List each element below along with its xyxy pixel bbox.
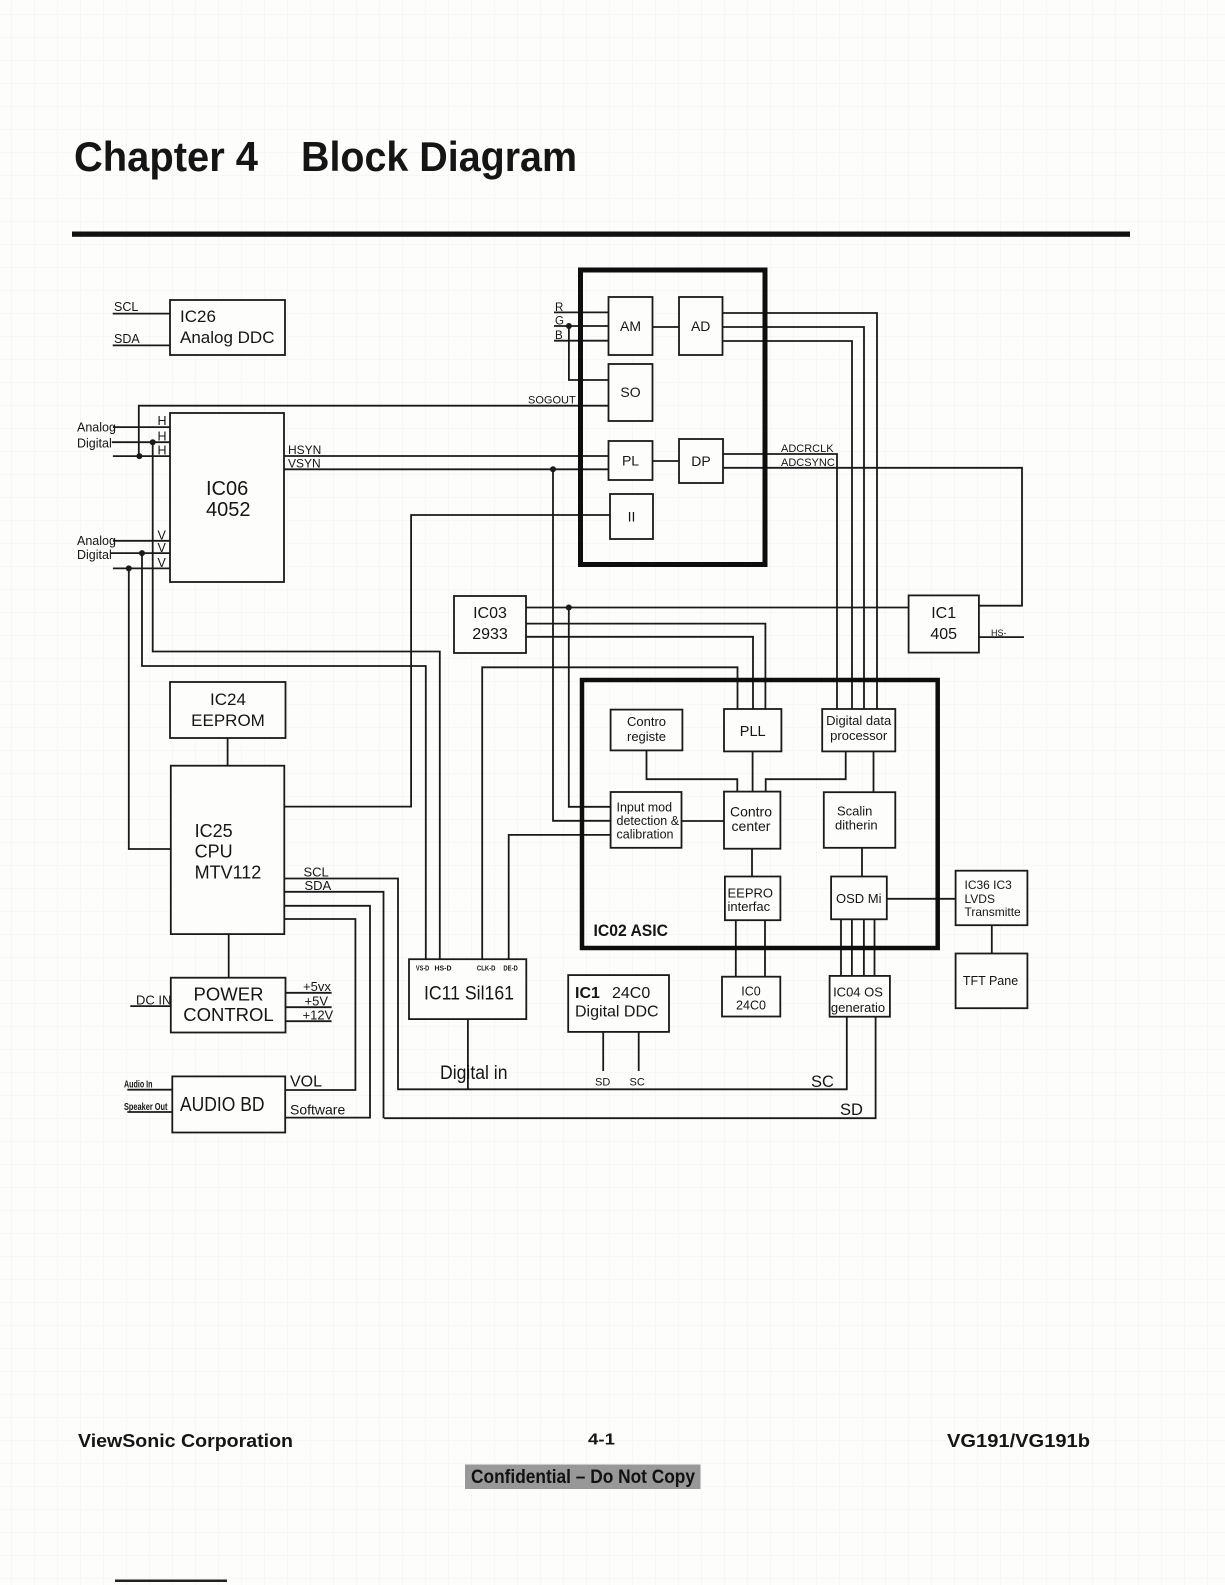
svg-text:IC36 IC3: IC36 IC3 xyxy=(965,878,1013,892)
svg-text:SD: SD xyxy=(840,1101,863,1119)
svg-text:Analog: Analog xyxy=(77,534,116,548)
wire OSD Mi to LVDS transmitter xyxy=(887,898,956,900)
wire third H input xyxy=(113,455,170,457)
wire R input stub xyxy=(554,311,609,313)
svg-text:V: V xyxy=(158,556,167,570)
wire Contro registe to Contro center xyxy=(647,750,738,791)
svg-text:AM: AM xyxy=(620,318,641,334)
box Input mod detection and calibration xyxy=(611,792,682,848)
svg-text:4-1: 4-1 xyxy=(588,1432,615,1449)
wire IC11 Digital in drop xyxy=(467,1019,469,1089)
wire LVDS transmitter to TFT panel xyxy=(991,925,993,953)
wire Digital data processor to Scalin ditherin xyxy=(873,751,875,792)
svg-text:DC IN: DC IN xyxy=(136,992,171,1007)
box IC1 24C0 Digital DDC xyxy=(568,975,669,1032)
svg-text:Scalin: Scalin xyxy=(837,804,872,819)
wire SDA from IC25 down to SD line xyxy=(284,892,383,1118)
wire SC bus line to IC04 xyxy=(397,1017,847,1090)
svg-text:CLK-D: CLK-D xyxy=(477,964,496,973)
svg-text:B: B xyxy=(555,330,563,342)
junction VSYN xyxy=(550,466,556,472)
svg-text:Digital in: Digital in xyxy=(440,1063,508,1084)
svg-text:registe: registe xyxy=(627,729,666,744)
svg-text:calibration: calibration xyxy=(617,828,674,842)
svg-text:AD: AD xyxy=(691,318,710,334)
box AD xyxy=(679,297,723,355)
wire DC IN stub xyxy=(130,1005,171,1007)
svg-text:IC04 OS: IC04 OS xyxy=(833,985,883,1000)
box IC36 IC3 LVDS Transmitte xyxy=(956,871,1028,926)
stray scan line bottom left xyxy=(115,1580,227,1583)
svg-text:405: 405 xyxy=(930,626,957,643)
svg-text:Block Diagram: Block Diagram xyxy=(301,133,577,180)
wire Software from IC25 to AUDIO BD xyxy=(284,906,370,1118)
svg-text:Transmitte: Transmitte xyxy=(965,905,1022,919)
wire B input stub xyxy=(554,340,609,342)
box Scalin ditherin xyxy=(824,792,896,848)
wire HS- stub from IC1 405 xyxy=(979,636,1024,638)
wire V input junction down to IC25 left pin xyxy=(129,568,171,849)
svg-text:generatio: generatio xyxy=(831,1000,885,1015)
junction third H / SOGOUT xyxy=(136,453,142,459)
svg-text:SD: SD xyxy=(595,1077,610,1089)
svg-text:Audio In: Audio In xyxy=(124,1080,153,1091)
wire PL to DP xyxy=(653,460,680,462)
wire IC11 DE-D up to Input mod pin xyxy=(509,835,611,959)
box PL xyxy=(609,441,653,480)
box IC04 OS generatio xyxy=(830,976,890,1017)
junction third V xyxy=(126,565,132,571)
box AUDIO BD xyxy=(172,1076,285,1132)
wire Speaker Out stub xyxy=(127,1111,172,1113)
svg-text:PL: PL xyxy=(622,453,639,469)
wire IC25 to POWER CONTROL xyxy=(228,934,230,978)
svg-text:H: H xyxy=(158,444,167,458)
wire ADCSYNC from DP to IC1 405 xyxy=(723,468,1022,606)
svg-text:detection &: detection & xyxy=(617,814,680,828)
title Chapter 4 Block Diagram xyxy=(74,133,577,180)
svg-text:SO: SO xyxy=(620,384,640,400)
svg-text:DP: DP xyxy=(691,453,710,469)
svg-text:LVDS: LVDS xyxy=(965,892,995,906)
svg-text:IC11 Sil161: IC11 Sil161 xyxy=(424,984,514,1005)
box Contro registe xyxy=(611,710,683,751)
svg-text:Digital: Digital xyxy=(77,437,112,451)
footer confidential highlight xyxy=(465,1465,701,1490)
svg-text:VS-D: VS-D xyxy=(416,964,430,973)
svg-text:V: V xyxy=(158,541,167,555)
svg-text:TFT Pane: TFT Pane xyxy=(963,974,1018,988)
svg-text:ditherin: ditherin xyxy=(835,818,878,833)
svg-text:H: H xyxy=(158,430,167,444)
junction Digital H xyxy=(150,439,156,445)
wire Analog V input xyxy=(113,540,170,542)
box AM xyxy=(609,297,653,355)
svg-text:Digital DDC: Digital DDC xyxy=(575,1004,659,1021)
svg-text:MTV112: MTV112 xyxy=(195,863,262,883)
svg-text:ViewSonic Corporation: ViewSonic Corporation xyxy=(78,1431,293,1451)
svg-text:HSYN: HSYN xyxy=(288,443,321,457)
svg-text:VOL: VOL xyxy=(290,1074,322,1091)
svg-text:4052: 4052 xyxy=(206,499,251,521)
svg-text:+12V: +12V xyxy=(303,1008,334,1023)
svg-text:24C0: 24C0 xyxy=(736,999,766,1013)
svg-text:IC02 ASIC: IC02 ASIC xyxy=(594,922,669,940)
wire Digital V input xyxy=(111,552,170,554)
svg-text:IC0: IC0 xyxy=(741,985,761,999)
svg-text:Analog DDC: Analog DDC xyxy=(180,328,275,347)
svg-text:SDA: SDA xyxy=(305,878,332,893)
wire Contro center to EEPRO interfac xyxy=(751,849,753,877)
svg-text:+5vx: +5vx xyxy=(303,979,331,994)
box IC06 4052 xyxy=(170,413,284,582)
wire Scalin ditherin to OSD Mi xyxy=(861,848,863,877)
wire ADCRCLK from DP down to Digital data processor xyxy=(723,454,837,709)
svg-text:Contro: Contro xyxy=(627,714,666,729)
wire IC25 to II box xyxy=(284,515,610,807)
svg-text:CONTROL: CONTROL xyxy=(183,1004,273,1025)
wire Digital H down to IC11 HS-D pin xyxy=(153,442,440,959)
wire B output from AD down to Digital data processor xyxy=(723,341,853,709)
svg-text:Digital data: Digital data xyxy=(826,713,892,728)
wire OSD Mi to IC04 pin 3 xyxy=(863,919,865,976)
wire OSD Mi to IC04 pin 2 xyxy=(851,919,853,976)
box Contro center xyxy=(724,792,780,849)
wire IC03 third output to PLL xyxy=(526,637,753,709)
svg-text:SDA: SDA xyxy=(114,332,140,346)
svg-text:SC: SC xyxy=(811,1073,834,1091)
thick box IC02 ASIC xyxy=(582,680,938,948)
svg-text:IC03: IC03 xyxy=(473,605,507,622)
svg-text:POWER: POWER xyxy=(194,984,264,1005)
svg-text:AUDIO BD: AUDIO BD xyxy=(180,1093,265,1116)
svg-text:VG191/VG191b: VG191/VG191b xyxy=(947,1431,1090,1451)
box DP xyxy=(679,439,723,483)
svg-text:OSD Mi: OSD Mi xyxy=(836,891,882,906)
wire VSYN branch down to Input mod pin 2 xyxy=(553,469,611,821)
wire IC24 to IC25 xyxy=(227,738,229,766)
wire +5vx stub xyxy=(286,992,332,994)
box OSD Mi xyxy=(831,877,887,920)
svg-text:SOGOUT: SOGOUT xyxy=(528,395,576,407)
svg-text:CPU: CPU xyxy=(195,842,233,862)
wire OSD Mi to IC04 pin 1 xyxy=(840,919,842,976)
wire HSYN from IC06 to PL xyxy=(284,455,609,457)
svg-text:VSYN: VSYN xyxy=(288,457,321,471)
svg-text:processor: processor xyxy=(830,728,888,743)
wire SD bus line to IC04 xyxy=(384,1017,875,1118)
svg-text:SC: SC xyxy=(630,1077,645,1089)
junction Digital V xyxy=(139,550,145,556)
box IC0 24C0 xyxy=(722,977,780,1017)
box II xyxy=(610,494,653,539)
wire Input mod to Contro center xyxy=(682,820,725,822)
box PLL xyxy=(724,709,781,751)
svg-text:IC124C0: IC124C0 xyxy=(575,985,650,1002)
wire AM to AD xyxy=(653,326,680,328)
wire R output from AD down to Digital data processor xyxy=(723,313,878,709)
wire SCL from IC25 down to SC line xyxy=(284,879,398,1090)
svg-text:H: H xyxy=(158,414,167,428)
box IC11 Sil161 xyxy=(409,959,526,1019)
wire PLL to Contro center xyxy=(752,751,754,791)
svg-text:EEPROM: EEPROM xyxy=(191,711,265,730)
wire VOL from IC25 to AUDIO BD xyxy=(284,919,355,1090)
wire G input stub xyxy=(554,325,609,327)
box EEPRO interfac xyxy=(725,877,781,921)
wire IC1 DDC SD stub xyxy=(602,1032,604,1071)
svg-text:Software: Software xyxy=(290,1102,345,1118)
wire third V input xyxy=(113,567,170,569)
wire IC03 second output to PLL xyxy=(526,624,765,709)
wire G output from AD down to Digital data processor xyxy=(723,327,865,709)
wire Digital H input xyxy=(112,441,170,443)
wire SOGOUT net from H input to SO box xyxy=(139,406,609,456)
wire IC03 line branch down to Input mod pin 1 xyxy=(569,608,611,807)
svg-text:Input mod: Input mod xyxy=(617,801,673,815)
wire Audio In stub xyxy=(127,1089,172,1091)
box IC26 Analog DDC xyxy=(170,300,285,355)
svg-text:Confidential – Do Not Copy: Confidential – Do Not Copy xyxy=(471,1467,695,1488)
svg-text:ADCRCLK: ADCRCLK xyxy=(781,443,834,455)
wire +12V stub xyxy=(286,1020,332,1022)
box SO xyxy=(609,364,653,421)
svg-text:II: II xyxy=(628,509,636,525)
wire G branch down into SO xyxy=(569,326,609,380)
wire EEPRO interfac to IC0 24C0 pin b xyxy=(764,920,766,977)
wire OSD Mi to IC04 pin 4 xyxy=(874,919,876,976)
junction G sync-on-green xyxy=(566,323,572,329)
wire IC11 CLK-D up and over to PLL xyxy=(482,667,737,959)
wire Analog H input xyxy=(113,426,170,428)
junction IC03 output xyxy=(566,605,572,611)
title rule xyxy=(72,232,1130,237)
svg-text:ADCSYNC: ADCSYNC xyxy=(781,457,835,469)
wire +5V stub xyxy=(286,1006,332,1008)
svg-text:IC26: IC26 xyxy=(180,307,216,326)
wire IC03 to IC1 405 xyxy=(526,607,909,609)
svg-text:IC1: IC1 xyxy=(931,605,956,622)
svg-text:2933: 2933 xyxy=(472,626,508,643)
svg-text:Chapter 4: Chapter 4 xyxy=(74,133,259,180)
svg-text:HS-D: HS-D xyxy=(435,964,453,973)
wire SDA stub to IC26 xyxy=(113,344,170,346)
svg-text:HS-: HS- xyxy=(991,628,1007,638)
svg-text:IC25: IC25 xyxy=(195,821,233,841)
svg-text:G: G xyxy=(555,316,564,328)
wire SCL stub to IC26 xyxy=(113,313,170,315)
wire VSYN from IC06 to PL xyxy=(284,468,609,470)
svg-text:DE-D: DE-D xyxy=(503,964,518,973)
svg-text:center: center xyxy=(732,818,771,834)
box TFT Pane xyxy=(956,954,1028,1009)
svg-text:PLL: PLL xyxy=(740,724,766,740)
svg-text:Digital: Digital xyxy=(77,548,112,562)
svg-text:IC06: IC06 xyxy=(206,478,248,500)
box POWER CONTROL xyxy=(171,978,286,1033)
svg-text:+5V: +5V xyxy=(305,993,329,1008)
thick box ADC section xyxy=(581,270,766,565)
box IC1 405 xyxy=(909,595,979,652)
wire IC1 DDC SC stub xyxy=(638,1032,640,1071)
box IC25 CPU MTV112 xyxy=(171,766,284,934)
svg-text:Speaker Out: Speaker Out xyxy=(124,1102,168,1113)
svg-text:Analog: Analog xyxy=(77,421,116,435)
svg-text:SCL: SCL xyxy=(114,300,138,314)
svg-text:interfac: interfac xyxy=(728,899,771,914)
wire Digital data processor to Contro center xyxy=(766,751,846,791)
box IC03 2933 xyxy=(454,596,526,653)
box Digital data processor xyxy=(822,709,895,751)
wire EEPRO interfac to IC0 24C0 pin a xyxy=(735,920,737,977)
box IC24 EEPROM xyxy=(170,682,286,738)
svg-text:IC24: IC24 xyxy=(210,690,246,709)
svg-text:R: R xyxy=(555,302,563,314)
wire Digital V down to IC11 VS-D pin xyxy=(142,553,426,959)
